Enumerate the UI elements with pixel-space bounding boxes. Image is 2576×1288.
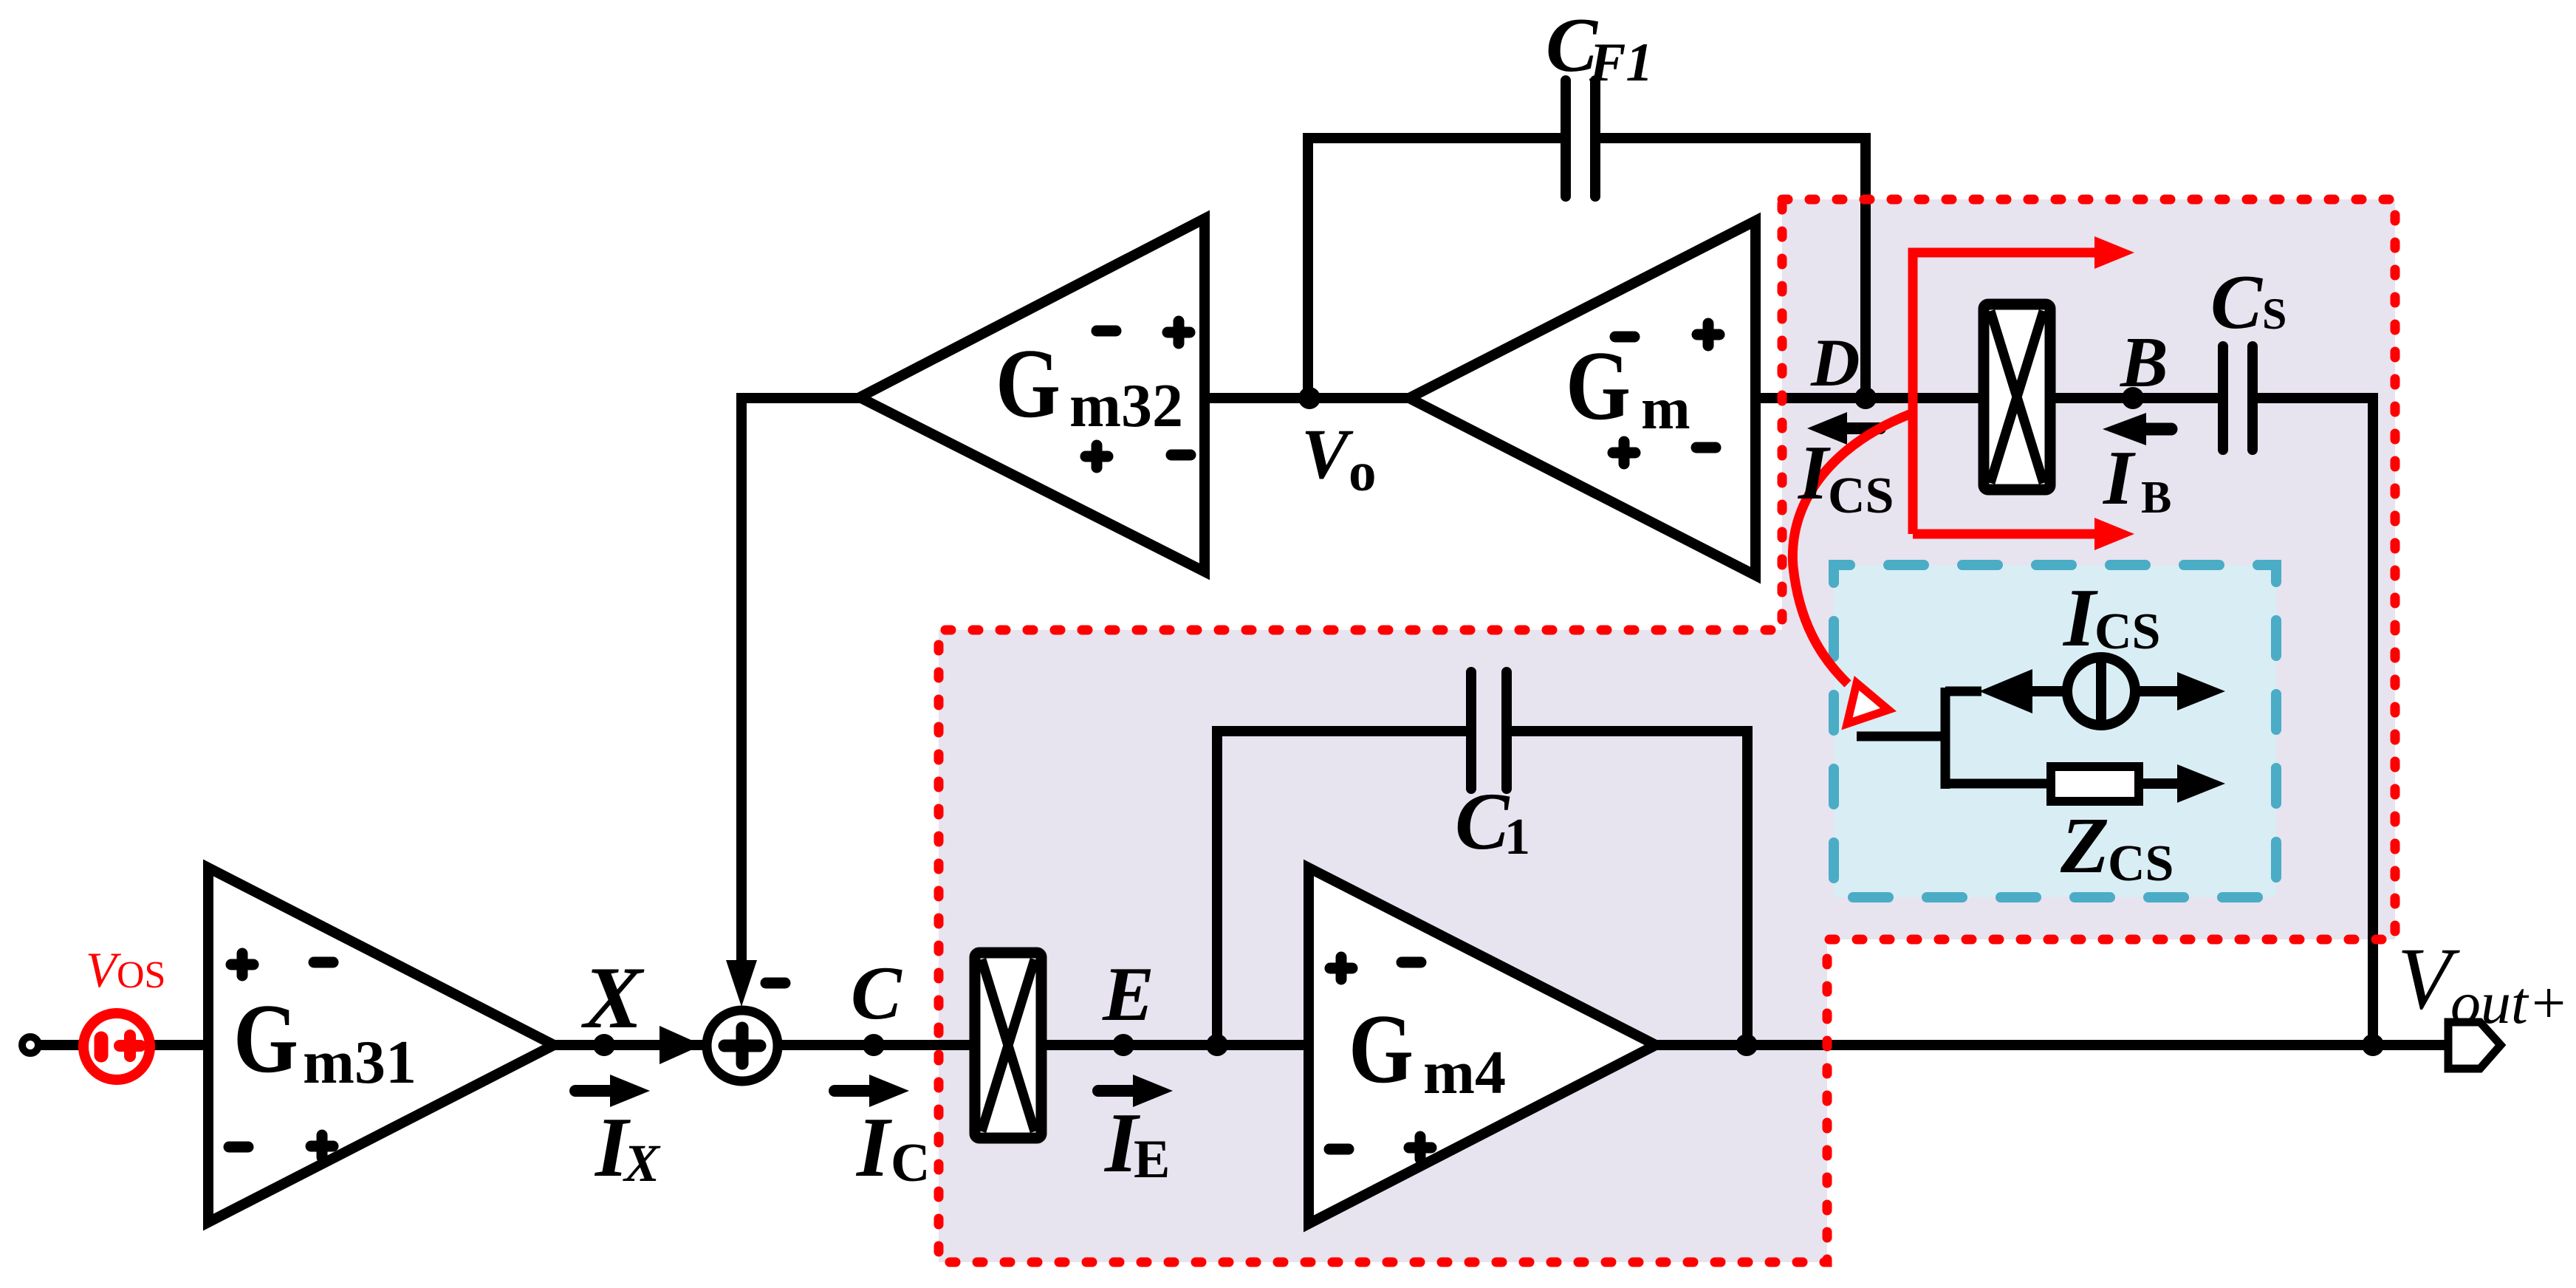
svg-text:o: o [1349,442,1377,503]
wire: arrow into summing junction (down) [726,960,757,1007]
Gm4 signs [1330,957,1352,979]
svg-text:m: m [1641,377,1690,442]
svg-text:G: G [996,329,1061,438]
capacitor C1 [1471,672,1507,789]
capacitor CF1 [1566,80,1595,196]
svg-text:Z: Z [2060,802,2109,890]
summing junction [707,1010,778,1081]
wire: summer to chopper2 (node C) [778,1040,975,1050]
Vos source circle [83,1013,150,1080]
svg-text:F1: F1 [1589,32,1653,93]
red feed path up/right [1913,253,2100,534]
impedance ZCS branch [1945,779,2051,789]
shaded replica region (lavender union of red dashed boxes) [939,199,2395,1262]
wire: input terminal to Gm31 [30,1040,208,1050]
svg-text:B: B [2120,323,2168,402]
arrows: IC [835,1085,871,1097]
svg-text:G: G [1566,331,1631,440]
chopper box top [1984,304,2050,490]
svg-text:m4: m4 [1423,1038,1506,1107]
svg-text:G: G [1349,994,1414,1103]
svg-text:out+: out+ [2450,969,2569,1036]
svg-text:OS: OS [117,954,165,996]
current source ICS branch [1945,687,1981,696]
svg-text:I: I [2062,572,2098,664]
wire: Gm31 tip to summer (node X) [554,1040,708,1050]
svg-text:B: B [2141,473,2171,523]
svg-text:I: I [1797,429,1831,515]
input terminal [22,1037,38,1053]
blue dashed CS equivalent box [1834,565,2276,897]
svg-text:I: I [855,1100,893,1194]
svg-text:I: I [2102,434,2136,521]
red curved arrow [1792,414,1911,684]
svg-text:X: X [580,948,645,1046]
op-amp Gm4 [1309,868,1656,1224]
red feed path lower right [1913,530,2100,539]
svg-text:S: S [2262,290,2286,338]
chopper box bottom [975,953,1041,1138]
svg-text:CS: CS [2094,603,2160,660]
red dashed region border [939,199,2395,1262]
wire: chopper2 to Gm4 (nodes E, C1 tap) [1041,1040,1309,1050]
svg-text:C: C [851,951,902,1035]
op-amp Gm [1409,221,1755,575]
node dots [593,1034,615,1056]
svg-text:CS: CS [1828,467,1894,524]
wire: Gm32 output left then down to summer [741,398,860,967]
wire: C1 feedback loop [1217,731,1747,1045]
svg-text:m31: m31 [303,1028,417,1097]
wire: Gm4 output to Vout+ [1656,1040,2448,1050]
svg-text:D: D [1810,325,1860,400]
branch bar [1941,688,1950,789]
Vout+ terminal [2448,1022,2501,1069]
Gm signs [1615,332,1634,343]
wire: top horizontal Gm32 to Gm tip (node Vo) [1205,393,1409,403]
svg-text:1: 1 [1504,809,1530,866]
svg-text:m32: m32 [1069,371,1183,440]
arrow on wire into summer [660,1026,702,1064]
svg-text:C: C [1455,776,1510,866]
svg-text:E: E [1102,950,1154,1037]
svg-text:C: C [891,1133,930,1193]
svg-text:CS: CS [2108,835,2173,892]
op-amp Gm32 [860,219,1205,572]
arrows: ICS near D (left) [1846,422,1880,434]
stub wire [1857,732,1945,741]
svg-text:E: E [1134,1129,1170,1190]
wire: Cs right to corner down to output node [2257,398,2373,1045]
Gm31 signs [231,953,253,976]
svg-text:G: G [233,984,298,1093]
svg-text:V: V [1301,414,1354,493]
svg-text:X: X [623,1134,661,1193]
arrows: IB (left) [2142,423,2171,436]
op-amp Gm31 [208,868,554,1222]
wire: Gm output to D to chopper [1755,393,1984,403]
wire: CF1 feedback loop [1308,138,1866,398]
Gm32 signs [1097,326,1116,337]
wire: chopper to B to Cs [2050,393,2219,403]
svg-text:C: C [2210,258,2264,345]
minus at summer [766,978,785,989]
arrows: IX [575,1085,612,1097]
arrows: IE [1098,1085,1134,1097]
capacitor Cs [2223,346,2253,450]
